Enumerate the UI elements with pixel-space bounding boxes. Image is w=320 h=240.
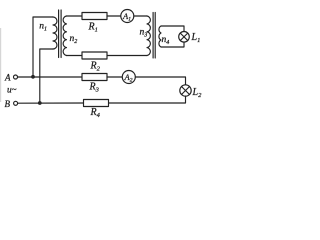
lamp L1 [179, 32, 190, 43]
junction dot at B row [38, 101, 42, 105]
coil n2 [63, 16, 66, 56]
coil n4 [159, 26, 161, 47]
core (transformer 1) [58, 10, 60, 58]
coil n3 [147, 16, 150, 56]
wire: R2 to n2 bottom [67, 55, 83, 57]
ammeter A1 [121, 10, 134, 23]
wire: R3 to A2 [107, 76, 122, 78]
wire: n1 top lead [33, 17, 53, 77]
wire: A1 to n3 [134, 15, 147, 17]
wire: n1 bottom lead [40, 49, 53, 103]
wire: n2 top to R1 [67, 15, 83, 17]
wire: n3 bottom to R2 [107, 55, 147, 57]
wire: R4 to terminal B [18, 102, 84, 104]
svg-text:A: A [4, 73, 11, 83]
coil n1 [53, 17, 57, 49]
wire: n4 top to lamp L1 [161, 26, 184, 32]
wire: A2 to lamp L2 [135, 77, 185, 85]
resistor R4 [84, 100, 109, 107]
wire: n4 bottom to lamp L1 [161, 42, 184, 47]
resistor R1 [82, 13, 107, 20]
lamp L2 [180, 85, 191, 96]
scan edge artifact [0, 28, 2, 102]
svg-text:u~: u~ [7, 85, 17, 96]
terminal A [14, 75, 18, 79]
resistor R2 [82, 52, 107, 59]
svg-text:B: B [5, 99, 11, 109]
core (transformer 2) [152, 13, 154, 59]
wire: A row [18, 76, 83, 78]
junction dot at A row [31, 75, 35, 79]
terminal B [14, 101, 18, 105]
wire: R1 to A1 [107, 15, 121, 17]
resistor R3 [82, 74, 107, 81]
wire: lamp L2 to B row [109, 96, 186, 103]
ammeter A2 [122, 71, 135, 84]
